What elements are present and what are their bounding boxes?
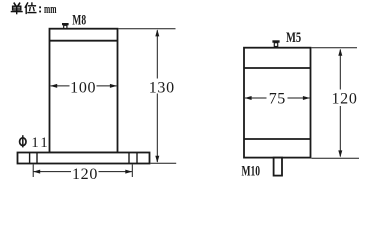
bolt M5 on top [272, 40, 279, 46]
bottom extension line [312, 157, 360, 159]
colon of unit label [39, 6, 41, 12]
单 box [13, 6, 21, 10]
right body bottom cap line [244, 138, 311, 140]
单 bottom horizontal [11, 11, 22, 13]
位 立 top dot [31, 3, 33, 5]
svg-text:11: 11 [31, 135, 48, 151]
label Φ11 [20, 135, 26, 147]
svg-text:100: 100 [70, 79, 96, 96]
130 dimension line [156, 30, 158, 162]
svg-text:M10: M10 [242, 163, 261, 179]
top extension line [312, 47, 358, 49]
stud M10 at bottom [274, 158, 282, 176]
left body outline [50, 29, 118, 153]
dimension 75 (right body width) [245, 97, 310, 99]
left flange [18, 153, 150, 164]
svg-text:mm: mm [44, 2, 57, 16]
svg-text:M8: M8 [72, 12, 86, 28]
svg-text:M5: M5 [286, 30, 301, 46]
unit label "单位: mm" [11, 3, 35, 14]
位 立 side strokes [30, 8, 34, 11]
right body outline [244, 48, 311, 158]
120 dimension line [34, 171, 132, 173]
单 center vertical [16, 6, 18, 13]
svg-text:130: 130 [149, 79, 175, 96]
left flange hole lines [30, 153, 137, 164]
位 person radical [25, 3, 27, 7]
extension lines [33, 165, 132, 178]
120 dimension line [339, 50, 341, 157]
位 立 bottom horizontal [28, 12, 36, 14]
单 dots [14, 3, 19, 5]
位 立 top horizontal [28, 5, 35, 7]
bolt M8 on top [62, 23, 69, 29]
svg-text:75: 75 [269, 90, 286, 107]
bottom extension line [151, 162, 177, 164]
svg-text:120: 120 [72, 166, 98, 183]
top extension line [119, 28, 176, 30]
svg-text:120: 120 [331, 90, 357, 107]
right body top cap line [244, 67, 311, 69]
dimension 100 (left body width) [51, 85, 117, 87]
left body cap line [50, 40, 118, 42]
